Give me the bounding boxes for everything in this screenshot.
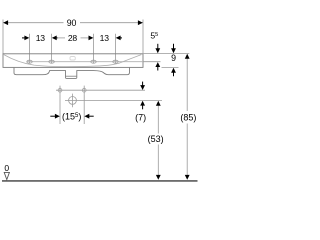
dimension 9: lower arrow	[171, 68, 176, 73]
drain crosshair circle	[69, 97, 77, 105]
dimension 28: dimension line	[58, 37, 66, 39]
svg-text:13: 13	[36, 33, 46, 43]
dimension 13 left: tail and arrowhead	[22, 37, 26, 39]
tap hole extension line x=51.6	[51, 34, 53, 64]
washbasin underside shroud outline	[14, 68, 130, 79]
dimension (15.5): right arrow	[84, 114, 89, 119]
overflow mark	[70, 57, 75, 60]
tap hole 1	[27, 60, 32, 63]
dimension (53): dimension line	[157, 105, 159, 134]
dimension 5.5: lower arrow	[155, 62, 160, 67]
dimension (85): top arrowhead	[185, 54, 190, 59]
rim level line A	[143, 53, 189, 55]
deck level line B	[143, 61, 161, 63]
svg-text:28: 28	[68, 33, 78, 43]
dimension (85): dimension line	[186, 58, 188, 111]
dimension 28: right arrowhead	[89, 36, 94, 41]
dimension (15.5): extension line right	[83, 94, 85, 124]
dimension (85): bottom arrowhead	[185, 175, 190, 180]
dimension 90: dimension line	[3, 22, 64, 24]
water connection cross right	[82, 88, 86, 92]
svg-text:(7): (7)	[135, 113, 146, 123]
svg-text:9: 9	[171, 53, 176, 63]
dimension 90: extension line left	[2, 20, 4, 54]
svg-text:(155): (155)	[62, 111, 81, 121]
tap hole 2	[49, 60, 54, 63]
svg-text:0: 0	[4, 163, 9, 173]
basin bottom level line C	[162, 66, 179, 68]
tap hole extension line x=29.5	[29, 34, 31, 64]
dimension (7): upper arrow	[142, 82, 144, 87]
water connection level line	[56, 89, 145, 91]
washbasin interior deck line	[27, 61, 143, 63]
tap hole extension line x=115.5	[115, 34, 117, 64]
dimension 90: left arrowhead	[3, 20, 8, 25]
dimension (15.5): left arrow	[50, 115, 55, 117]
dimension 9: upper arrow	[173, 44, 175, 49]
datum triangle	[4, 172, 9, 179]
water connection cross left	[58, 88, 62, 92]
dimension (7): lower arrow	[140, 101, 145, 106]
tap hole extension line x=93.5	[93, 34, 95, 64]
washbasin outer outline	[3, 54, 143, 68]
svg-text:(53): (53)	[148, 134, 164, 144]
dimension (53): bottom arrowhead	[156, 175, 161, 180]
dimension 5.5: upper arrow	[157, 44, 159, 49]
dimension 90: right arrowhead	[138, 20, 143, 25]
drain boss inner line	[66, 75, 77, 77]
tap hole 3	[91, 60, 96, 63]
svg-text:90: 90	[67, 18, 77, 28]
drain level line	[81, 99, 163, 101]
tap hole 4	[113, 60, 118, 63]
floor line	[2, 180, 198, 182]
dimension (15.5): extension line left	[59, 94, 61, 124]
dimension 13 left: right arrowhead	[52, 36, 57, 41]
dimension 90: extension line right	[142, 20, 144, 54]
washbasin bowl silhouette curve	[4, 55, 142, 67]
svg-text:13: 13	[100, 33, 110, 43]
svg-text:(85): (85)	[180, 113, 196, 123]
dimension (53): top arrowhead	[156, 101, 161, 106]
dimension 13 right: right arrowhead and tail	[116, 36, 121, 41]
